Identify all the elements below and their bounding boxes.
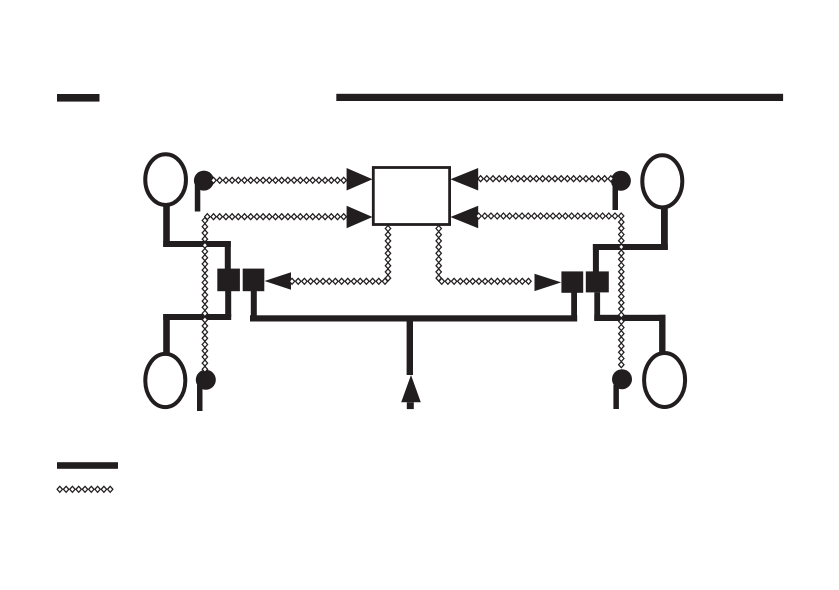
arrow: control signal into right modulator [535, 274, 562, 291]
wheel rear-left [145, 354, 185, 407]
left modulator valve block B [243, 269, 265, 292]
left modulator valve block A [217, 269, 240, 292]
main brake line (master cylinder manifold) [250, 291, 577, 322]
speed sensor front-right [611, 171, 631, 210]
arrow: FR sensor signal into control unit [450, 168, 478, 191]
ABS control unit [373, 168, 449, 225]
speed sensor rear-right [612, 369, 632, 409]
speed sensor front-left [194, 171, 214, 212]
brake line: left modulator to rear-left wheel (lower run) [163, 291, 231, 354]
right modulator valve block B [586, 271, 609, 292]
title rule long [336, 94, 783, 101]
signal line: FL sensor to control unit [211, 177, 347, 183]
title bar short (redacted heading) [57, 94, 100, 102]
brake line: front-left wheel to left modulator (upper run) [163, 204, 231, 269]
signal line: control unit to left modulator [289, 226, 390, 285]
signal line: RL sensor to control unit [202, 214, 346, 373]
arrow: RL sensor signal into control unit [347, 206, 373, 229]
arrow: FL sensor signal into control unit [347, 168, 373, 191]
signal line: FR sensor to control unit [478, 176, 614, 182]
master cylinder arrow (flow in) [401, 375, 421, 409]
speed sensor rear-left [196, 370, 216, 411]
arrow: RR sensor signal into control unit [450, 206, 478, 229]
right modulator valve block A [561, 271, 583, 292]
wheel front-right [642, 155, 682, 207]
signal line: RR sensor to control unit [476, 213, 624, 368]
wheel front-left [145, 154, 186, 205]
legend: brake line sample [57, 462, 118, 469]
legend: signal line sample [57, 486, 113, 492]
arrow: control signal into left modulator [265, 272, 292, 289]
signal line: control unit to right modulator [436, 226, 531, 285]
brake line: right modulator to rear-right wheel (lower run) [594, 293, 665, 354]
brake line: front-right wheel to right modulator (upper run) [593, 206, 668, 272]
master cylinder inlet stub [407, 321, 413, 375]
wheel rear-right [644, 353, 685, 407]
